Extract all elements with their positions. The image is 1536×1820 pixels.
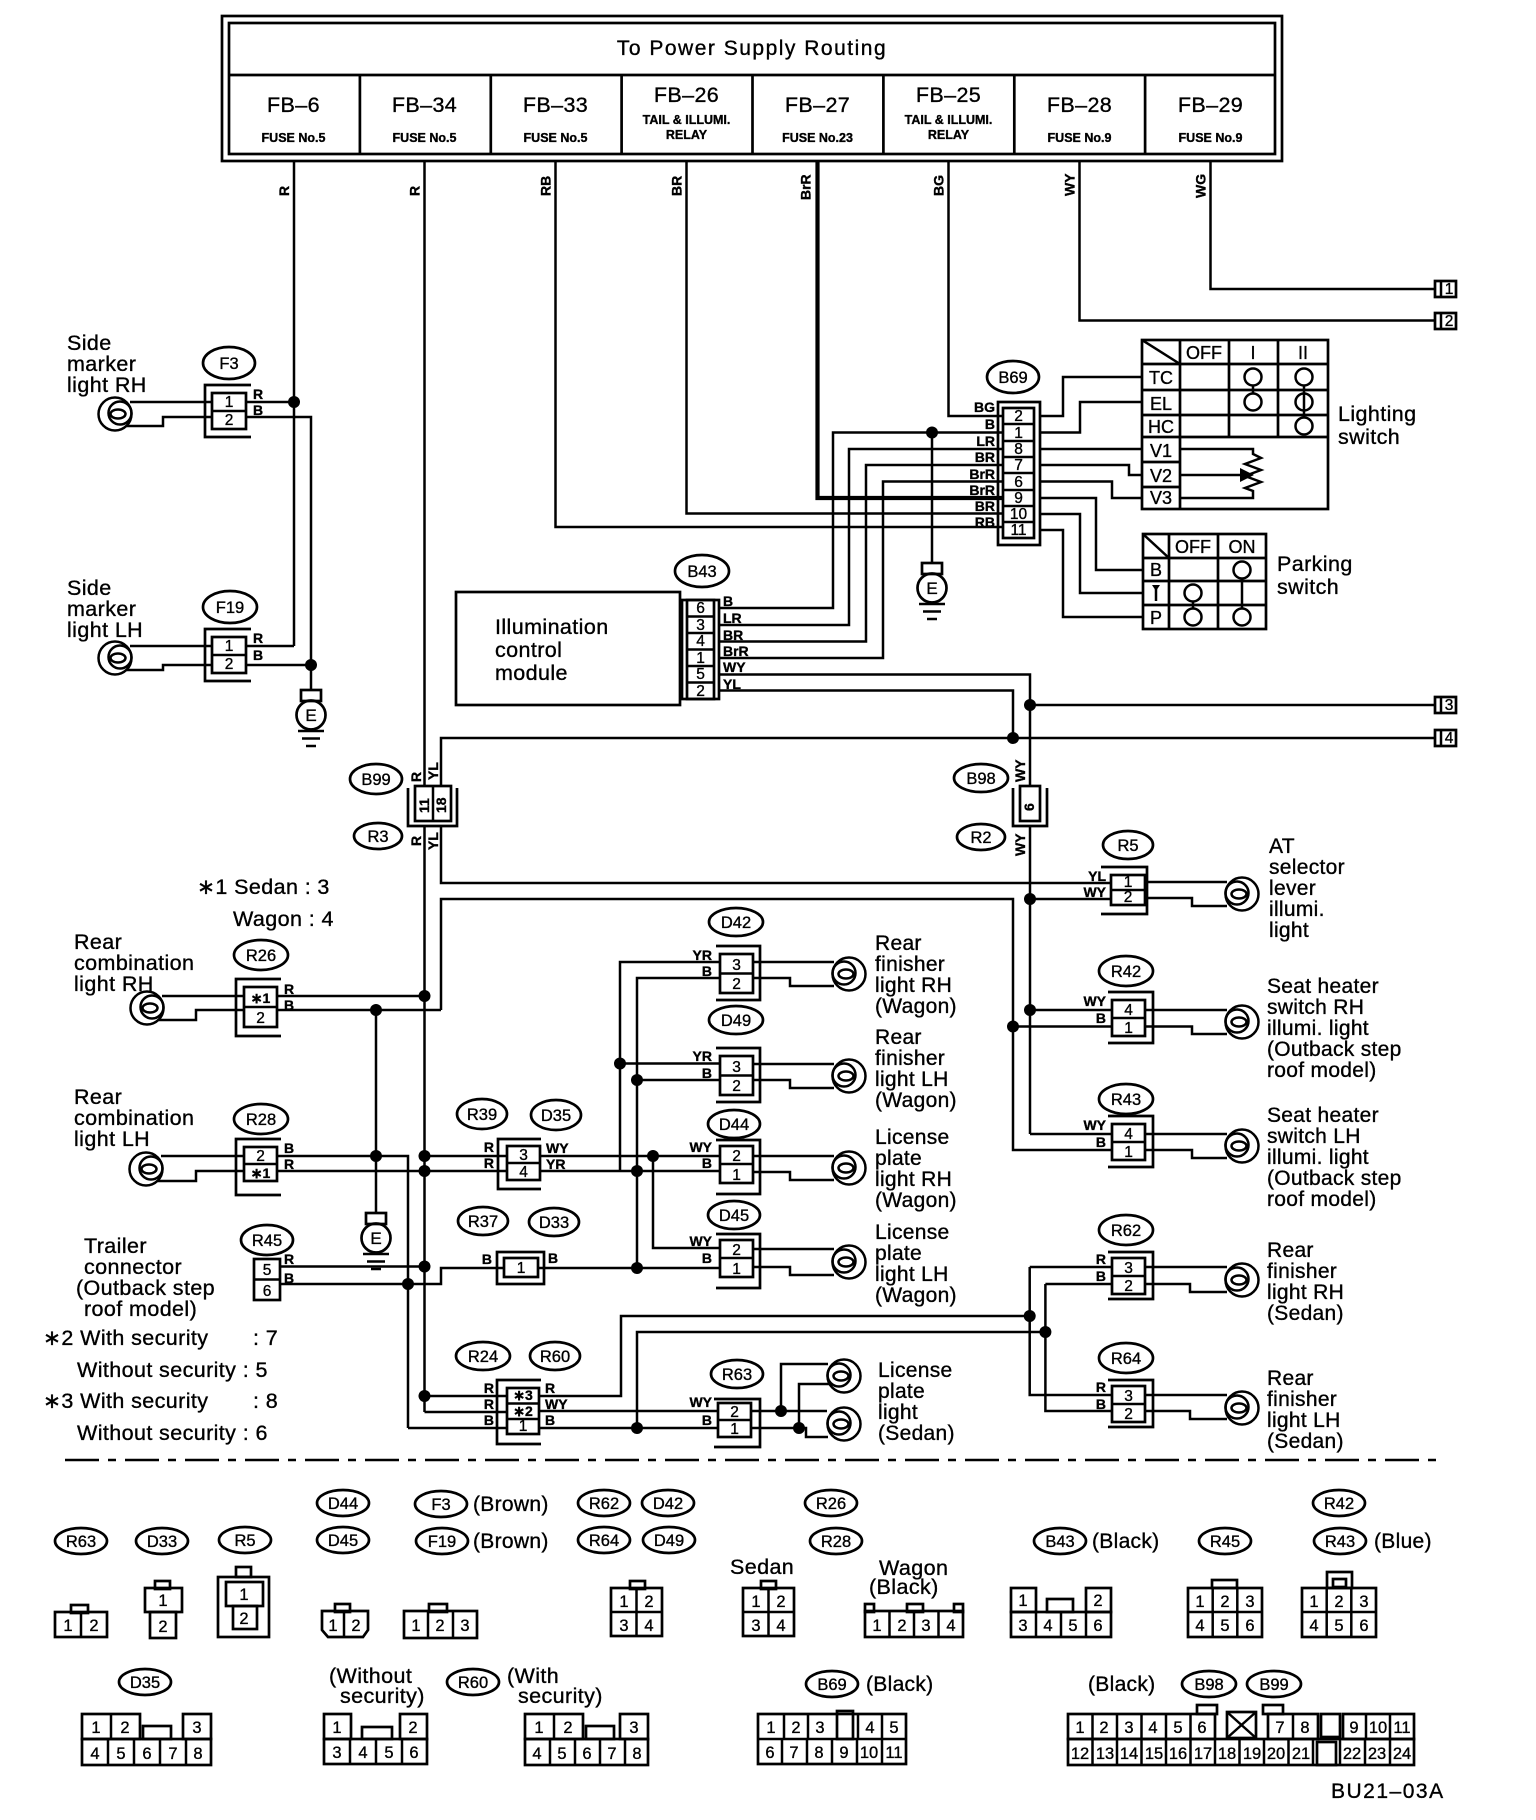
svg-text:6: 6 [142,1745,151,1763]
svg-text:R45: R45 [252,1232,282,1250]
bulb AT selector [1145,878,1259,911]
svg-text:1: 1 [1075,1719,1084,1737]
svg-text:2: 2 [225,656,234,673]
pinout oval D33 [136,1528,188,1554]
svg-text:∗2: ∗2 [513,1403,533,1419]
svg-text:D33: D33 [539,1214,569,1232]
svg-text:4: 4 [1195,1617,1204,1635]
svg-text:B98: B98 [1194,1676,1223,1694]
connector R28 [234,1104,294,1195]
pinout B98 B99 [1068,1705,1414,1765]
svg-text:FB–28: FB–28 [1047,93,1112,117]
svg-text:4: 4 [519,1164,528,1181]
svg-text:B69: B69 [998,369,1027,387]
resistor in lighting switch [1180,449,1261,498]
svg-text:∗3: ∗3 [513,1387,533,1403]
svg-text:3: 3 [519,1147,528,1164]
connector D49 [693,1006,763,1102]
svg-text:light RH: light RH [67,373,147,397]
pinout oval R5 [219,1527,271,1553]
svg-text:18: 18 [1218,1745,1236,1763]
svg-text:R26: R26 [246,947,276,965]
svg-text:WG: WG [1193,174,1209,198]
connector 3 (right edge) [1435,697,1456,714]
svg-text:1: 1 [534,1719,543,1737]
svg-text:P: P [1150,608,1162,628]
svg-text:1: 1 [91,1719,100,1737]
svg-text:4: 4 [532,1745,541,1763]
svg-text:ON: ON [1229,537,1256,557]
svg-text:(Black): (Black) [866,1673,933,1696]
svg-text:3: 3 [1245,1593,1254,1611]
svg-text:R: R [284,981,294,997]
label license plate light LH wagon [875,1221,957,1307]
svg-text:B98: B98 [966,770,995,788]
svg-text:V1: V1 [1150,441,1172,461]
svg-text:HC: HC [1148,417,1174,437]
wire B net bridge to R42/R43 [441,899,1112,1150]
svg-text:illumi. light: illumi. light [1267,1017,1369,1040]
connector R5 [1083,831,1153,914]
pinout R62 R64 [611,1581,662,1636]
svg-text:(Wagon): (Wagon) [875,1089,957,1112]
svg-text:WY: WY [689,1233,712,1249]
svg-text:6: 6 [263,1283,272,1300]
power supply routing box [222,16,1282,161]
svg-text:9: 9 [1014,490,1023,507]
svg-text:FUSE No.23: FUSE No.23 [782,131,853,145]
svg-text:2: 2 [435,1617,444,1635]
svg-text:WY: WY [1062,173,1078,196]
pinout oval D42 [642,1490,694,1516]
svg-text:B: B [985,416,995,432]
svg-text:2: 2 [732,976,741,993]
svg-text:plate: plate [878,1380,925,1403]
svg-text:D35: D35 [130,1674,160,1692]
svg-text:3: 3 [1359,1593,1368,1611]
connector R45 [241,1225,294,1300]
connector R37 D33 [458,1207,579,1284]
connector F19 [203,591,263,681]
svg-text:(Sedan): (Sedan) [1267,1430,1344,1453]
svg-text:6: 6 [1014,474,1023,491]
svg-text:(Outback step: (Outback step [1267,1167,1402,1190]
svg-text:2: 2 [1124,1278,1133,1295]
svg-text:R62: R62 [589,1495,619,1513]
svg-text:B: B [484,1412,494,1428]
svg-text:1: 1 [619,1593,628,1611]
svg-text:6: 6 [1197,1719,1206,1737]
wire R R24 pin3 to R62 R64 [539,1310,1112,1396]
svg-text:3: 3 [192,1719,201,1737]
svg-text:R3: R3 [367,828,388,846]
svg-text:2: 2 [1124,1406,1133,1423]
svg-text:D35: D35 [541,1107,571,1125]
svg-text:(Black): (Black) [1088,1673,1155,1696]
svg-text:TAIL & ILLUMI.: TAIL & ILLUMI. [643,113,731,127]
svg-text:light LH: light LH [1267,1409,1341,1432]
svg-text:17: 17 [1194,1745,1212,1763]
svg-text:YL: YL [1088,868,1106,884]
svg-text:D42: D42 [653,1495,683,1513]
wire B69 pin11 to parking P [1040,530,1143,617]
svg-text:6: 6 [1021,803,1037,811]
svg-text:Parking: Parking [1277,552,1353,576]
svg-text:R42: R42 [1324,1495,1354,1513]
svg-text:F19: F19 [216,599,244,617]
svg-text:R60: R60 [458,1674,488,1692]
svg-text:B: B [1150,560,1162,580]
wire R28 pin2 B [161,1155,244,1158]
svg-text:4: 4 [696,633,705,650]
svg-text:2: 2 [225,412,234,429]
svg-text:B: B [702,1155,712,1171]
connector F3 [203,347,263,437]
bulb seat heater RH [1145,1006,1259,1039]
svg-text:3: 3 [1124,1719,1133,1737]
svg-text:14: 14 [1120,1745,1138,1763]
svg-text:8: 8 [193,1745,202,1763]
svg-text:(Black): (Black) [1092,1530,1159,1553]
wire BR from FB-26 [669,161,1003,514]
connector B99 [350,762,457,850]
svg-text:5: 5 [1334,1617,1343,1635]
svg-text:6: 6 [582,1745,591,1763]
svg-text:R60: R60 [540,1348,570,1366]
ground E (top) [918,433,947,620]
svg-text:6: 6 [1093,1617,1102,1635]
label rear finisher light LH sedan [1267,1367,1344,1453]
pinout B69 [758,1711,906,1764]
svg-text:AT: AT [1269,835,1295,858]
connector R64 [1096,1343,1153,1427]
svg-text:23: 23 [1368,1745,1386,1763]
connector R42 [1083,956,1153,1043]
svg-text:2: 2 [1099,1719,1108,1737]
pinout D45 [322,1604,368,1637]
svg-text:R39: R39 [467,1106,497,1124]
svg-text:1: 1 [332,1719,341,1737]
svg-text:switch LH: switch LH [1267,1125,1361,1148]
svg-text:License: License [875,1221,949,1244]
svg-text:3: 3 [696,617,705,634]
svg-text:light: light [878,1401,918,1424]
svg-text:(Sedan): (Sedan) [1267,1302,1344,1325]
svg-text:(Outback step: (Outback step [1267,1038,1402,1061]
svg-text:FB–26: FB–26 [654,83,719,107]
svg-text:5: 5 [696,666,705,683]
svg-text:F3: F3 [219,355,238,373]
svg-text:BR: BR [669,176,685,196]
label AT selector lever illumi light [1269,835,1345,942]
svg-text:WY: WY [545,1396,568,1412]
svg-text:5: 5 [1068,1617,1077,1635]
connector R62 [1096,1215,1153,1299]
bulb rear combination LH [130,1153,163,1186]
svg-text:2: 2 [644,1593,653,1611]
svg-text:TAIL & ILLUMI.: TAIL & ILLUMI. [905,113,993,127]
wire to connector 3 [1030,704,1435,707]
svg-text:WY: WY [1083,1117,1106,1133]
svg-text:(Wagon): (Wagon) [875,995,957,1018]
svg-text:(Black): (Black) [869,1575,939,1599]
svg-text:roof model): roof model) [1267,1059,1377,1082]
svg-text:18: 18 [433,797,449,813]
label wagon black [869,1556,948,1599]
svg-text:7: 7 [1275,1719,1284,1737]
svg-text:Rear: Rear [875,932,922,955]
wire LR B69 pin8 to B43 pin3 [719,449,1002,625]
wire B net B69 pin1 to B43 pin6 [719,427,1002,609]
svg-text:2: 2 [256,1010,265,1027]
pinout R28 wagon [865,1604,963,1637]
bulb rear combination RH [131,992,164,1025]
svg-text:7: 7 [607,1745,616,1763]
svg-text:R26: R26 [816,1495,846,1513]
bulb seat heater LH [1145,1130,1259,1163]
wire WY from D35 pin3 [540,1150,720,1162]
pinout oval B69 black [806,1671,933,1697]
svg-text:BrR: BrR [969,482,995,498]
pinout oval R62 [578,1490,630,1516]
svg-text:BrR: BrR [798,174,814,200]
svg-text:4: 4 [1124,1126,1133,1143]
svg-text:FB–34: FB–34 [392,93,457,117]
svg-text:(Brown): (Brown) [473,1530,549,1553]
svg-text:1: 1 [239,1586,248,1604]
connector R43 [1083,1084,1153,1167]
svg-text:WY: WY [1012,833,1028,856]
svg-text:4: 4 [644,1617,653,1635]
svg-text:2: 2 [1445,313,1454,330]
svg-text:R: R [253,386,263,402]
svg-text:B: B [702,1065,712,1081]
svg-text:WY: WY [1012,759,1028,782]
svg-text:1: 1 [63,1617,72,1635]
svg-text:switch RH: switch RH [1267,996,1364,1019]
svg-text:3: 3 [332,1744,341,1762]
svg-text:1: 1 [1124,1144,1133,1161]
oval R2 [957,824,1005,850]
label with security [507,1664,603,1708]
svg-text:6: 6 [696,600,705,617]
svg-text:FB–6: FB–6 [267,93,320,117]
svg-text:FUSE No.9: FUSE No.9 [1048,131,1112,145]
svg-text:5: 5 [263,1262,272,1279]
svg-text:R: R [484,1380,494,1396]
svg-text:4: 4 [1309,1617,1318,1635]
svg-text:3: 3 [1124,1260,1133,1277]
wire YL B99 pin18 to R5 pin1 [441,826,1111,883]
svg-text:R43: R43 [1111,1091,1141,1109]
svg-text:OFF: OFF [1186,343,1222,363]
svg-text:: 7: : 7 [253,1326,278,1350]
connector B43 [675,555,749,700]
svg-text:WY: WY [546,1140,569,1156]
wire WY to R43 pin4 [1030,1133,1112,1136]
connector R26 [234,940,294,1036]
label license plate light sedan [878,1359,955,1445]
svg-text:To Power Supply Routing: To Power Supply Routing [617,37,887,60]
svg-text:BG: BG [974,399,995,415]
separator dash line [65,1459,1440,1462]
wire B69 pin10 to parking middle [1040,514,1143,593]
svg-text:4: 4 [1124,1002,1133,1019]
pinout R63 [55,1605,107,1637]
svg-text:lever: lever [1269,877,1316,900]
svg-text:1: 1 [751,1593,760,1611]
svg-text:switch: switch [1277,575,1339,599]
wire YR D42 pin3 [620,962,720,1172]
svg-text:light LH: light LH [875,1068,949,1091]
svg-text:2: 2 [351,1617,360,1635]
ground E (left) [297,665,326,746]
svg-text:5: 5 [1220,1617,1229,1635]
wire BG from FB-25 [931,161,1003,416]
svg-text:R: R [545,1380,555,1396]
wire B D42 pin2 [637,978,720,1268]
wire F19 pin2 B [126,665,212,670]
svg-text:light LH: light LH [74,1127,150,1151]
svg-text:YL: YL [425,832,441,850]
pinout D33 [145,1581,182,1638]
svg-text:2: 2 [730,1404,739,1421]
wire WG from FB-29 [1193,161,1436,289]
svg-text:∗3 With security: ∗3 With security [43,1389,208,1413]
pinout oval R43 blue [1314,1528,1432,1554]
wire R26 pin2 B [158,1010,244,1020]
fuse FB-29 [1178,93,1243,145]
pinout oval F3 brown [415,1491,549,1517]
svg-text:R62: R62 [1111,1222,1141,1240]
connector D42 [693,908,763,1000]
svg-text:D44: D44 [328,1495,358,1513]
svg-text:R63: R63 [66,1533,96,1551]
svg-text:V3: V3 [1150,488,1172,508]
svg-text:FUSE No.5: FUSE No.5 [524,131,588,145]
svg-text:roof model): roof model) [84,1297,197,1321]
svg-text:1: 1 [766,1719,775,1737]
connector R63 [689,1360,763,1447]
pinout oval D35 [119,1669,171,1695]
svg-text:5: 5 [557,1745,566,1763]
svg-text:finisher: finisher [1267,1260,1337,1283]
label side marker light LH [67,576,143,642]
svg-text:WY: WY [1083,884,1106,900]
connector R24 R60 [456,1342,580,1444]
label rear combination light RH [74,930,194,996]
pinout oval R60 [447,1669,499,1695]
svg-text:D49: D49 [654,1532,684,1550]
bulb rear finisher LH sedan [1145,1392,1259,1425]
svg-text:R64: R64 [1111,1350,1141,1368]
pinout oval R63 [55,1528,107,1554]
bulb rear finisher LH wagon [753,1060,866,1093]
svg-text:2: 2 [158,1618,167,1636]
svg-text:10: 10 [860,1744,878,1762]
wire WY R63 pin2 to bulbs [751,1364,828,1417]
svg-text:R: R [1096,1251,1106,1267]
svg-text:∗1: ∗1 [251,990,271,1006]
svg-text:BR: BR [723,627,743,643]
svg-text:2: 2 [791,1719,800,1737]
svg-text:B: B [702,963,712,979]
wire R from FB-34 [407,161,425,785]
label rear finisher light RH sedan [1267,1239,1344,1325]
bulb license plate LH wagon [753,1246,866,1279]
svg-text:4: 4 [358,1744,367,1762]
svg-text:D44: D44 [719,1116,749,1134]
fuse FB-6 [262,93,326,145]
svg-text:EL: EL [1150,394,1172,414]
label without security [329,1664,425,1708]
wire F3 pin2 B [126,417,212,426]
svg-text:3: 3 [732,957,741,974]
svg-text:1: 1 [1018,1592,1027,1610]
wire YL line 4 [441,738,1435,785]
svg-text:3: 3 [1018,1617,1027,1635]
svg-text:7: 7 [1014,457,1023,474]
wire B R63 pin1 to bulbs [751,1384,829,1437]
svg-text:3: 3 [1124,1388,1133,1405]
svg-text:6: 6 [409,1744,418,1762]
svg-text:security): security) [340,1684,425,1708]
svg-text:(Wagon): (Wagon) [875,1284,957,1307]
svg-text:B: B [1096,1396,1106,1412]
svg-text:B: B [545,1412,555,1428]
svg-text:21: 21 [1292,1745,1310,1763]
svg-text:LR: LR [976,433,995,449]
svg-text:illumi.: illumi. [1269,898,1325,921]
svg-text:6: 6 [1245,1617,1254,1635]
svg-text:D45: D45 [328,1532,358,1550]
svg-text:2: 2 [1334,1593,1343,1611]
svg-text:∗1 Sedan : 3: ∗1 Sedan : 3 [197,875,330,899]
svg-text:1: 1 [1445,281,1454,298]
svg-text:Illumination: Illumination [495,615,609,639]
wire WY to R42 pin4 [1030,1009,1112,1012]
label rear combination light LH [74,1085,194,1151]
svg-text:II: II [1298,343,1308,363]
connector 1 (right edge) [1435,281,1456,298]
svg-text:1: 1 [1309,1593,1318,1611]
wire RB from FB-33 [538,161,1003,527]
bulb license plate sedan upper [828,1360,861,1393]
svg-text:1: 1 [732,1261,741,1278]
wire WY down to D45 [653,1156,720,1248]
pinout R5 [218,1567,269,1637]
fuse FB-28 [1047,93,1112,145]
wire R45 pin6 B [280,1268,504,1284]
svg-text:B: B [702,1412,712,1428]
svg-text:1: 1 [730,1421,739,1438]
label seat heater switch LH [1267,1104,1402,1211]
relay FB-26 [643,83,731,142]
svg-text:R: R [484,1139,494,1155]
wire B to R42 pin1 [1013,1025,1112,1028]
svg-text:3: 3 [921,1617,930,1635]
svg-text:R: R [484,1155,494,1171]
fuse FB-33 [523,93,588,145]
label trailer connector [76,1234,215,1321]
parking switch [1143,534,1353,629]
wire F3 pin1 R [130,401,212,404]
wire YR D49 pin3 [620,1062,720,1065]
svg-text:R28: R28 [246,1111,276,1129]
svg-text:(Blue): (Blue) [1374,1530,1432,1553]
svg-text:R43: R43 [1325,1533,1355,1551]
svg-text:E: E [305,706,316,725]
